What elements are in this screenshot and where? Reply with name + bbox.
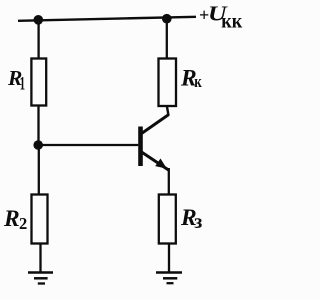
transistor Q1 emitter arrow (155, 159, 167, 169)
svg-text:к: к (194, 72, 202, 91)
svg-text:з: з (194, 211, 202, 233)
resistor R1 (31, 59, 46, 106)
label +Ukk supply (199, 3, 243, 33)
label Re (180, 205, 202, 233)
svg-text:2: 2 (19, 214, 27, 233)
wire R2 to ground (39, 244, 41, 273)
wire top supply rail (18, 17, 196, 21)
wire rail to Rk (166, 19, 168, 59)
svg-text:1: 1 (20, 75, 26, 95)
transistor Q1 collector lead (142, 115, 169, 134)
wire rail to R1 (37, 20, 39, 59)
resistor R2 (32, 195, 48, 244)
ground right (156, 273, 182, 284)
svg-text:кк: кк (221, 9, 243, 33)
label Rk (180, 65, 202, 91)
wire Re to ground (168, 244, 170, 273)
wire R1 to base node (37, 106, 39, 146)
node junction dot left (rail to R1) (34, 15, 44, 25)
wire base node to R2 (38, 145, 40, 195)
resistor Re (159, 195, 176, 244)
transistor Q1 emitter lead (142, 152, 169, 170)
svg-text:R: R (3, 206, 20, 232)
label R2 (3, 206, 27, 233)
resistor Rk (159, 59, 177, 107)
wire emitter to Re (168, 168, 170, 195)
label R1 (7, 66, 25, 95)
ground left (28, 273, 53, 284)
wire Rk to collector (167, 106, 169, 116)
node junction dot base divider (33, 140, 43, 150)
wire base node to transistor base (38, 144, 138, 146)
transistor Q1 base bar (138, 127, 143, 167)
node junction dot right (rail to Rk) (162, 14, 172, 24)
